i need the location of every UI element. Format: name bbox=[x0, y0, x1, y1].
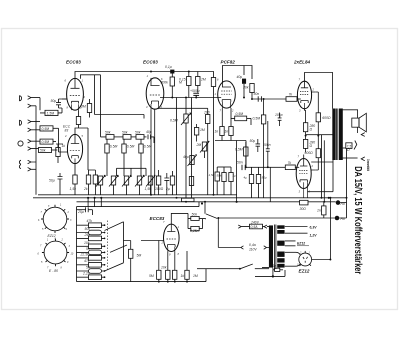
wire bass link bbox=[117, 168, 147, 176]
svg-text:47k: 47k bbox=[87, 219, 93, 223]
input jack 3a bbox=[28, 139, 39, 143]
svg-text:5M: 5M bbox=[149, 274, 154, 278]
resistor screen el84 bbox=[222, 167, 226, 195]
wire mixer feed bbox=[95, 75, 145, 137]
tube ECC83 splitter envelope bbox=[160, 224, 179, 251]
ez12 pin numbers bbox=[297, 252, 311, 267]
capacitor 25u tone bbox=[77, 207, 93, 215]
svg-text:50k: 50k bbox=[217, 174, 222, 178]
wire stub anode pin1 bbox=[81, 75, 101, 79]
svg-text:50n: 50n bbox=[254, 92, 260, 96]
svg-text:2M: 2M bbox=[200, 78, 206, 82]
tube ECC83 no1 envelope bbox=[62, 78, 83, 110]
svg-text:110V: 110V bbox=[249, 247, 257, 251]
svg-text:0,25n: 0,25n bbox=[190, 229, 199, 233]
svg-text:0,5M: 0,5M bbox=[170, 119, 178, 123]
tone resistor 47k bbox=[77, 223, 105, 228]
svg-text:M: M bbox=[179, 81, 182, 85]
svg-text:5n: 5n bbox=[86, 266, 90, 270]
cathode resistor stage2 bbox=[73, 164, 77, 195]
svg-text:+500μ: +500μ bbox=[190, 89, 200, 93]
svg-text:50n: 50n bbox=[192, 213, 198, 217]
vertical tube2 cathode bbox=[151, 109, 155, 195]
resistor 280 top bbox=[303, 109, 307, 136]
wire speaker bottom tap bbox=[357, 127, 359, 133]
tube EL84 no1 envelope bbox=[297, 81, 315, 109]
resistor 1k ch3 bbox=[56, 144, 63, 163]
svg-text:50μ: 50μ bbox=[262, 176, 267, 180]
svg-text:2μ: 2μ bbox=[165, 187, 170, 191]
pilot lamp 1 bbox=[336, 200, 347, 205]
wire secondary mid tap bbox=[343, 147, 346, 149]
grid resistor row c bbox=[139, 139, 143, 176]
svg-text:50n: 50n bbox=[237, 161, 243, 165]
svg-text:200: 200 bbox=[203, 111, 210, 115]
capacitor 0.1u on rail bbox=[170, 70, 174, 77]
svg-text:1,2V: 1,2V bbox=[310, 234, 318, 238]
switch upper from bus bbox=[205, 202, 217, 219]
svg-text:1,5k: 1,5k bbox=[70, 187, 77, 191]
resistor mixer out bbox=[170, 171, 174, 195]
wire anode2 to mixer bbox=[75, 128, 95, 170]
capacitor 50n grid2 bbox=[242, 165, 245, 170]
tone resistor 10k bbox=[77, 244, 105, 249]
output terminal hook3 bbox=[361, 157, 365, 161]
svg-text:300k: 300k bbox=[161, 81, 169, 85]
tone capacitor 5n bbox=[77, 250, 105, 255]
tube ECC83 no2 envelope bbox=[146, 78, 164, 109]
svg-text:10k: 10k bbox=[161, 266, 167, 270]
vertical from grid line a bbox=[176, 98, 178, 195]
switch column wire bbox=[124, 222, 131, 263]
capacitor 40u PCF bbox=[242, 79, 246, 98]
svg-text:50μ: 50μ bbox=[49, 179, 55, 183]
tone box top edge bbox=[77, 202, 207, 282]
svg-text:1M: 1M bbox=[200, 128, 205, 132]
tube ECC83 no1 second triode bbox=[63, 134, 83, 163]
wire secondary bottom tap bbox=[343, 157, 358, 159]
svg-text:40μ: 40μ bbox=[237, 75, 243, 79]
capacitor 50u cathode2 bbox=[58, 173, 63, 195]
svg-text:50k: 50k bbox=[40, 149, 46, 153]
svg-text:0,5M: 0,5M bbox=[110, 145, 118, 149]
splitter grid return bbox=[158, 241, 160, 271]
svg-text:PCF82: PCF82 bbox=[221, 60, 236, 65]
input hook bracket bbox=[19, 160, 21, 168]
input bracket 3 bbox=[18, 141, 23, 146]
resistor 300k bbox=[170, 77, 174, 98]
svg-text:5n: 5n bbox=[86, 247, 90, 251]
svg-text:2M: 2M bbox=[196, 143, 202, 147]
switch arm group A bbox=[105, 222, 124, 231]
svg-text:DA 15/V, 15 W Kofferverstärker: DA 15/V, 15 W Kofferverstärker bbox=[352, 166, 363, 274]
svg-text:1,5M: 1,5M bbox=[47, 112, 55, 116]
svg-text:6,3V: 6,3V bbox=[310, 225, 318, 229]
svg-text:ECC83: ECC83 bbox=[143, 60, 158, 65]
mains fuse 0.5A row bbox=[238, 224, 269, 229]
output transformer primary winding bbox=[332, 109, 335, 161]
transformer terminal labels bbox=[249, 221, 317, 268]
resistor 280 bottom bbox=[303, 136, 307, 153]
secondary winding 6.3V a bbox=[277, 225, 284, 229]
wire splitter grid bbox=[141, 240, 160, 242]
capacitor 100p bbox=[278, 113, 282, 127]
capacitor 50u input bbox=[56, 99, 67, 108]
capacitor 1n bbox=[322, 202, 326, 218]
switch link dashed bbox=[107, 221, 109, 271]
svg-text:Ω: Ω bbox=[310, 128, 313, 132]
wire EL84 no1 grid line bbox=[252, 98, 286, 100]
svg-text:50k: 50k bbox=[105, 131, 111, 135]
ground rail left bbox=[35, 106, 37, 195]
vertical from grid line b bbox=[191, 98, 193, 198]
tone resistor 50k bbox=[77, 230, 105, 235]
tone resistor 25k bbox=[77, 236, 105, 241]
resistor 200 bbox=[206, 108, 210, 195]
resistor 5M splitter bbox=[157, 270, 161, 281]
svg-text:50k: 50k bbox=[135, 131, 141, 135]
capacitor 50n splitter a bbox=[191, 216, 206, 220]
tap hook2 bbox=[354, 141, 357, 150]
resistor 100 ohm bbox=[156, 170, 160, 195]
svg-text:30k: 30k bbox=[243, 86, 249, 90]
wire 6.3V terminal bbox=[285, 226, 308, 228]
svg-text:0,5M: 0,5M bbox=[42, 140, 50, 144]
svg-text:1k: 1k bbox=[62, 144, 66, 148]
resistor 0.15M bbox=[187, 72, 191, 98]
labels tubes bbox=[63, 60, 311, 222]
svg-text:1k: 1k bbox=[225, 130, 229, 134]
capacitor 100n coupling bbox=[266, 121, 270, 167]
resistor 1k splitter bbox=[173, 251, 177, 281]
wire HT to EZ12 pins bbox=[285, 252, 300, 266]
voltage selector row bbox=[218, 246, 269, 249]
tone box left edge bbox=[76, 207, 78, 282]
potentiometer bass cluster bbox=[188, 155, 197, 166]
svg-text:0,5M: 0,5M bbox=[144, 145, 152, 149]
svg-text:47k: 47k bbox=[84, 259, 90, 263]
mixer capacitor 40u bbox=[148, 135, 154, 144]
secondary winding EZ heater bbox=[277, 241, 284, 246]
resistor 1M mid bbox=[194, 124, 198, 142]
resistor 0.5M ch2 bbox=[40, 126, 63, 152]
resistor 3M bbox=[87, 99, 91, 118]
screen resistor bbox=[93, 170, 97, 195]
wire 40u branch bbox=[243, 66, 245, 76]
capacitor 50u el84 bbox=[229, 167, 233, 195]
tube PCF82 envelope bbox=[218, 81, 236, 108]
svg-text:2k: 2k bbox=[83, 187, 88, 191]
resistor 5M tone bbox=[129, 249, 133, 281]
wire el84 screen bus bbox=[217, 166, 231, 168]
capacitor 50n splitter b bbox=[191, 219, 203, 231]
input jack 1b bbox=[28, 104, 36, 108]
secondary winding HT a bbox=[277, 252, 284, 257]
svg-text:22,5k: 22,5k bbox=[80, 252, 90, 256]
svg-text:0,5M: 0,5M bbox=[42, 127, 50, 131]
wire heater drop bbox=[323, 140, 325, 202]
resistor 30k bbox=[250, 84, 254, 100]
resistor 1.5M bbox=[40, 108, 62, 116]
tone resistor 22.5k bbox=[77, 256, 105, 261]
svg-text:7k: 7k bbox=[289, 93, 293, 97]
svg-text:600Ω: 600Ω bbox=[305, 151, 314, 155]
svg-text:1n: 1n bbox=[317, 209, 321, 213]
svg-text:EZ12: EZ12 bbox=[297, 242, 305, 246]
svg-text:Ω: Ω bbox=[310, 144, 313, 148]
switch arm group C bbox=[105, 263, 124, 271]
mixer resistor 50k c bbox=[136, 135, 147, 140]
svg-text:0,5M: 0,5M bbox=[236, 112, 244, 116]
mixer labels bbox=[40, 99, 170, 191]
resistor 250k bbox=[189, 177, 193, 186]
wire PCF82 anode top rail bbox=[223, 66, 253, 82]
resistor 0.5M grid2 bbox=[244, 142, 248, 165]
svg-text:10k: 10k bbox=[84, 241, 90, 245]
tone resistor 47k b bbox=[77, 263, 105, 268]
svg-text:2xEL84: 2xEL84 bbox=[293, 60, 311, 65]
wire secondary top to speaker bbox=[343, 110, 358, 118]
resistor 1k pcf screen bbox=[229, 108, 233, 141]
mixer resistor 50k a bbox=[106, 135, 123, 140]
capacitor grid2 bbox=[256, 167, 260, 198]
svg-text:50μ: 50μ bbox=[250, 139, 256, 143]
resistor 7k grid2 bbox=[285, 165, 299, 170]
socket diagram EZ12 bbox=[41, 205, 69, 233]
svg-text:100p: 100p bbox=[275, 113, 283, 117]
wire EL84 no2 grid line bbox=[246, 166, 285, 168]
svg-text:240V: 240V bbox=[250, 221, 260, 225]
bus line B1 bbox=[38, 194, 237, 196]
wire jack1 feed bbox=[39, 98, 41, 111]
socket labels bbox=[48, 234, 310, 273]
svg-text:Gesamtbild: Gesamtbild bbox=[366, 159, 370, 171]
resistor 50 ohm bus mid bbox=[182, 198, 195, 201]
wire HT centre bottom bbox=[255, 270, 285, 276]
resistor 50k ch3 bbox=[39, 148, 58, 153]
resistor grid2 leak bbox=[249, 167, 253, 198]
tube EL84 no2 envelope bbox=[296, 159, 315, 198]
junction dot HT bbox=[272, 275, 274, 277]
speaker LS bbox=[352, 113, 367, 132]
svg-text:0,5M: 0,5M bbox=[127, 145, 135, 149]
svg-text:E - 80: E - 80 bbox=[49, 269, 58, 273]
svg-text:3M: 3M bbox=[81, 105, 86, 109]
resistor 1k pcf cathode bbox=[220, 108, 224, 141]
wire EL84 no2 anode to OT bottom bbox=[304, 155, 333, 192]
wire switch to lamp2 bbox=[218, 218, 334, 248]
secondary winding HT b bbox=[277, 258, 284, 262]
resistor 1M splitter bbox=[185, 251, 189, 282]
power transformer primary winding bbox=[269, 225, 273, 267]
potentiometer P4 bbox=[135, 175, 144, 195]
resistor 0.5M ch3 bbox=[39, 139, 57, 144]
bus line B3 bbox=[77, 201, 336, 203]
secondary winding HT c bbox=[277, 264, 284, 268]
svg-text:0,5M: 0,5M bbox=[235, 148, 243, 152]
svg-text:0,5A: 0,5A bbox=[251, 225, 259, 229]
resistor 0.5M pcf bbox=[231, 116, 251, 125]
wire top rail stage1 bbox=[75, 72, 214, 79]
svg-text:50μ: 50μ bbox=[51, 99, 57, 103]
output transformer secondary winding bbox=[339, 109, 343, 161]
svg-text:100Ω: 100Ω bbox=[155, 187, 164, 191]
svg-text:0,5M: 0,5M bbox=[253, 117, 261, 121]
capacitor 50n grid1 bbox=[258, 96, 261, 101]
resistor 0.5M grid1 bbox=[261, 99, 265, 198]
svg-text:ECC83: ECC83 bbox=[66, 60, 81, 65]
bus taps into tone box bbox=[88, 198, 101, 207]
svg-text:1μ: 1μ bbox=[233, 174, 237, 178]
input jack 2b bbox=[28, 128, 40, 132]
input jack 3b bbox=[28, 147, 39, 151]
svg-text:30Ω: 30Ω bbox=[300, 207, 307, 211]
mains switch bbox=[197, 264, 269, 270]
switch arm group B bbox=[110, 245, 127, 252]
power transformer core bbox=[274, 225, 276, 270]
pilot lamp 2 bbox=[335, 149, 347, 221]
resistor 1.5k decouple bbox=[215, 167, 219, 195]
rectifier EZ12 envelope bbox=[299, 251, 312, 266]
wire EL84 anode top bbox=[305, 73, 333, 109]
svg-text:Ω: Ω bbox=[347, 148, 350, 152]
resistor 30 ohm bus bbox=[300, 200, 308, 205]
output terminal hook1 bbox=[361, 133, 365, 137]
wire pcf bottom bbox=[215, 141, 246, 202]
impedance tap box bbox=[346, 143, 352, 149]
potentiometer 0.5M volume bbox=[181, 98, 191, 198]
input jack 1a bbox=[28, 96, 40, 100]
resistor 2M rail end bbox=[211, 78, 215, 195]
svg-text:1M: 1M bbox=[193, 274, 198, 278]
tone capacitor 2.2n bbox=[77, 275, 105, 280]
svg-text:0,1μ: 0,1μ bbox=[165, 65, 172, 69]
wire triode bottom link bbox=[159, 107, 208, 109]
socket pin numbers bbox=[38, 204, 74, 270]
svg-text:50k: 50k bbox=[122, 131, 128, 135]
capacitor mixer out bbox=[164, 173, 169, 195]
svg-text:50k: 50k bbox=[85, 227, 91, 231]
input jack 4b bbox=[28, 168, 36, 172]
svg-text:Rö: Rö bbox=[341, 217, 345, 221]
potentiometer P5 bbox=[146, 175, 155, 195]
grid resistor row a bbox=[105, 139, 109, 176]
svg-text:83: 83 bbox=[65, 129, 69, 133]
wire EZ12 output bbox=[312, 198, 331, 260]
svg-text:25μ: 25μ bbox=[77, 210, 84, 214]
potentiometer treble bbox=[200, 141, 209, 158]
resistor 600 bottom bbox=[315, 136, 320, 170]
wire splitter anode top bbox=[171, 213, 191, 228]
resistor 10k splitter bbox=[166, 251, 170, 281]
wire grid coupling ECC83-PCF82 bbox=[164, 97, 218, 99]
bus line B2 bbox=[33, 197, 347, 199]
svg-text:100n: 100n bbox=[263, 143, 271, 147]
svg-text:Rö: Rö bbox=[341, 202, 345, 206]
wire coupling drop bbox=[269, 167, 271, 202]
svg-text:1,5k: 1,5k bbox=[209, 173, 215, 177]
svg-text:25k: 25k bbox=[84, 233, 91, 237]
input bracket 1 bbox=[20, 96, 22, 102]
mixer resistor 50k b bbox=[123, 135, 136, 140]
fuse 1a bbox=[262, 268, 283, 277]
socket diagram E80 bbox=[42, 239, 69, 266]
svg-text:1a: 1a bbox=[273, 264, 277, 268]
grid resistor row b bbox=[122, 139, 126, 176]
svg-text:40μ: 40μ bbox=[183, 155, 189, 159]
bottom bus tone box bbox=[77, 281, 207, 283]
svg-text:5M: 5M bbox=[137, 254, 142, 258]
svg-text:EZ12: EZ12 bbox=[299, 269, 310, 274]
svg-text:2,2n: 2,2n bbox=[82, 272, 90, 276]
svg-text:600Ω: 600Ω bbox=[322, 116, 331, 120]
input jack 4a bbox=[28, 160, 36, 164]
capacitor 500u bbox=[193, 93, 199, 97]
input bracket 2 bbox=[20, 120, 22, 126]
svg-text:1k: 1k bbox=[181, 274, 185, 278]
svg-text:1k: 1k bbox=[215, 130, 219, 134]
potentiometer P2 bbox=[109, 175, 118, 195]
title vertical text bbox=[352, 159, 370, 274]
input jack 2a bbox=[28, 120, 40, 124]
svg-text:1,5k: 1,5k bbox=[145, 187, 152, 191]
output transformer core bbox=[337, 109, 338, 161]
potentiometer P3 bbox=[122, 175, 131, 195]
svg-text:4μ: 4μ bbox=[244, 176, 248, 180]
potentiometer P1 bbox=[96, 175, 105, 195]
tube pin numbers bbox=[65, 74, 315, 257]
svg-text:7k: 7k bbox=[288, 161, 292, 165]
secondary winding 6.3V b bbox=[277, 230, 284, 234]
wire 1.2V terminal bbox=[285, 232, 308, 234]
resistor 2M bbox=[196, 72, 200, 93]
capacitor 50u bias bbox=[256, 139, 261, 152]
stage labels bbox=[77, 65, 351, 278]
resistor 600 top bbox=[315, 92, 320, 136]
wire B+ feed to OT bbox=[306, 135, 333, 198]
tone capacitor 5n b bbox=[77, 269, 105, 274]
wire EZ heater terminals bbox=[285, 241, 296, 246]
decoupling resistor bbox=[86, 170, 90, 195]
resistor 7k grid1 bbox=[286, 97, 301, 102]
cathode resistor stage1 bbox=[76, 110, 80, 128]
